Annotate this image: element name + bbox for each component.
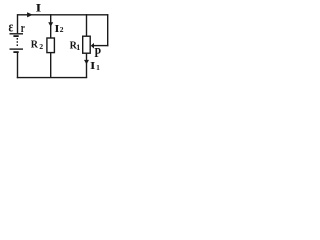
svg-text:I: I: [36, 1, 42, 14]
wire middle branch upper: [50, 14, 52, 38]
svg-text:P: P: [94, 45, 101, 60]
wire right edge (to wiper): [107, 14, 109, 46]
svg-text:2: 2: [39, 42, 43, 51]
svg-text:1: 1: [96, 63, 100, 72]
svg-text:ε: ε: [9, 18, 14, 35]
battery cell 2 short plate: [13, 51, 18, 53]
battery cell 2 long plate: [10, 48, 24, 50]
arrowhead current I1 (R1 branch, pointing down): [84, 60, 89, 65]
svg-text:2: 2: [60, 25, 64, 34]
wire wiper horizontal: [94, 45, 108, 47]
resistor R1 box: [83, 36, 91, 53]
battery cell 1 long plate: [10, 33, 24, 35]
wire top horizontal: [18, 14, 109, 16]
wire left upper (battery top lead): [17, 14, 19, 33]
arrowhead current I2 (middle branch, pointing down): [48, 22, 53, 27]
svg-text:1: 1: [76, 43, 80, 52]
wire R1 branch upper: [86, 14, 88, 36]
arrowhead current I (top wire, pointing right): [27, 12, 33, 17]
wire R1 branch lower: [86, 53, 88, 77]
battery cell 1 short plate: [13, 35, 18, 37]
svg-text:I: I: [90, 60, 96, 72]
battery dotted continuation: [16, 38, 18, 46]
wire left lower (battery bottom lead): [17, 53, 19, 79]
wire bottom horizontal: [17, 77, 87, 79]
svg-text:R: R: [31, 40, 39, 51]
svg-text:r: r: [21, 21, 25, 35]
circuit schematic: battery with EMF e and internal resistance r, resistors R1 (potentiometer) and R2: [0, 0, 117, 83]
resistor R2 box: [47, 38, 55, 53]
wire middle branch lower: [50, 53, 52, 78]
arrowhead wiper P (pointing left into R1): [91, 43, 94, 49]
